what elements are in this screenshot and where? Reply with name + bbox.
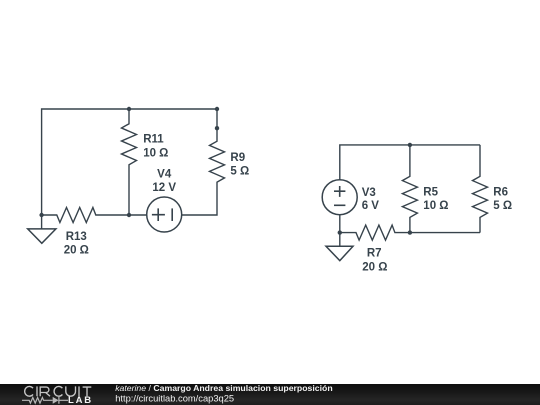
svg-text:R7: R7 <box>367 248 382 260</box>
node dot: left ground node <box>39 213 43 217</box>
CircuitLab logo: wire with resistor <box>22 398 53 404</box>
svg-text:R13: R13 <box>66 231 87 243</box>
node dot: R5 bottom junction <box>408 230 412 234</box>
wire: bottom rail right circuit <box>410 232 480 234</box>
ground symbol left <box>28 229 56 243</box>
V3 minus sign <box>334 204 345 206</box>
resistor R11 (10 ohm, vertical) <box>122 109 137 215</box>
wire: left circuit top rail and left side <box>42 109 217 215</box>
svg-text:R9: R9 <box>230 152 245 164</box>
svg-text:10 Ω: 10 Ω <box>143 147 168 159</box>
ground stub left <box>41 215 43 229</box>
node dot: V3 bottom node <box>338 230 342 234</box>
voltage source V4 (12 V) circle <box>147 197 182 232</box>
resistor R7 (20 ohm, horizontal) <box>340 225 410 240</box>
svg-text:LAB: LAB <box>68 395 93 405</box>
resistor R5 (10 ohm, vertical) <box>402 145 417 233</box>
node dot: R9 top terminal <box>215 126 219 130</box>
svg-text:20 Ω: 20 Ω <box>64 245 89 257</box>
svg-text:10 Ω: 10 Ω <box>423 200 448 212</box>
voltage source V3 (6 V) circle <box>322 180 357 215</box>
svg-text:5 Ω: 5 Ω <box>230 166 249 178</box>
svg-text:6 V: 6 V <box>362 200 380 212</box>
svg-text:R5: R5 <box>423 187 438 199</box>
V4 minus bar <box>171 208 173 221</box>
node dot: top right corner <box>215 107 219 111</box>
svg-text:R6: R6 <box>493 187 508 199</box>
svg-text:R11: R11 <box>143 134 164 146</box>
V4 plus sign <box>152 208 165 221</box>
ground stub right <box>339 233 341 247</box>
CircuitLab logo: CIRCUIT lettering <box>25 386 92 396</box>
node dot: top junction R11 <box>127 107 131 111</box>
resistor R9 (5 ohm, vertical) with wire down to V4 right terminal <box>182 109 225 215</box>
node dot: R11 bottom junction <box>127 213 131 217</box>
CircuitLab logo: diode <box>53 397 59 404</box>
wire: V3 bottom stub <box>339 215 341 233</box>
svg-text:V4: V4 <box>157 169 172 181</box>
wire: R13 right node to V4 left terminal <box>129 214 147 216</box>
svg-text:http://circuitlab.com/cap3q25: http://circuitlab.com/cap3q25 <box>115 393 234 403</box>
svg-text:12 V: 12 V <box>152 182 176 194</box>
footer bar <box>0 384 540 405</box>
svg-text:20 Ω: 20 Ω <box>362 261 387 273</box>
svg-text:5 Ω: 5 Ω <box>493 200 512 212</box>
wire: right circuit top rail <box>340 145 480 180</box>
node dot: R5 top junction <box>408 143 412 147</box>
V3 plus sign <box>334 186 345 197</box>
resistor R6 (5 ohm, vertical) <box>473 145 488 233</box>
svg-text:V3: V3 <box>362 187 376 199</box>
svg-text:katerine / Camargo Andrea simu: katerine / Camargo Andrea simulacion sup… <box>115 383 332 393</box>
ground symbol right <box>326 246 353 260</box>
resistor R13 (20 ohm, horizontal) <box>42 208 129 223</box>
